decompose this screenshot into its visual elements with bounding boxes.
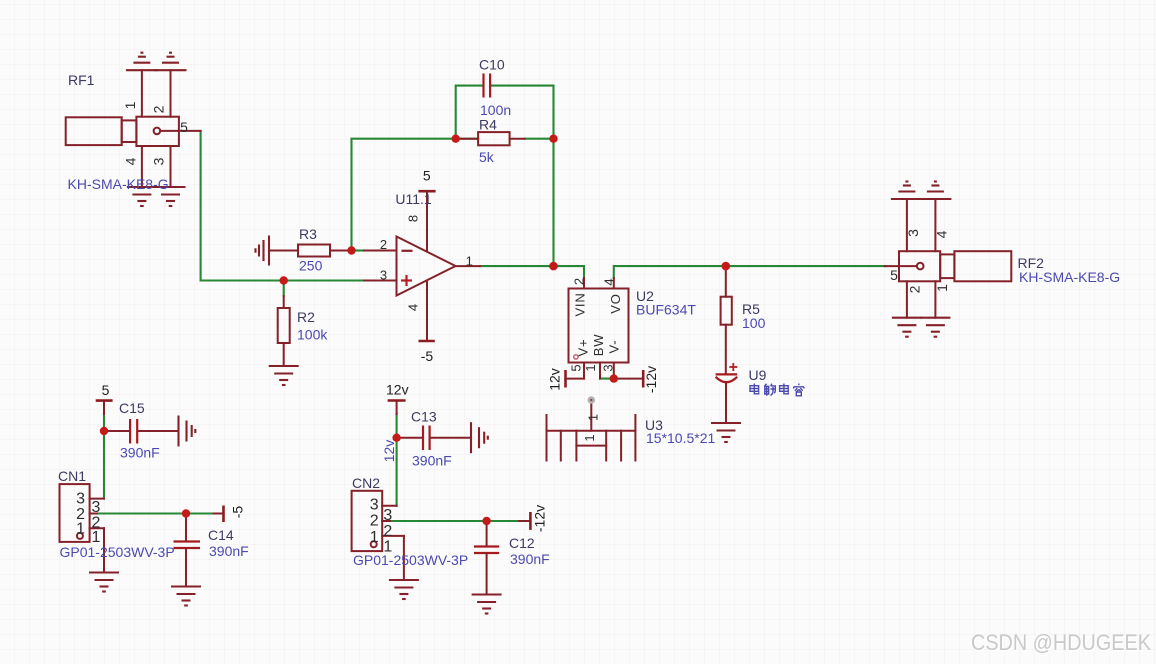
svg-text:3: 3 [76, 490, 85, 507]
svg-text:8: 8 [406, 215, 421, 222]
svg-text:V-: V- [607, 340, 622, 354]
svg-text:C15: C15 [119, 400, 145, 416]
svg-text:4: 4 [406, 304, 421, 311]
svg-text:100k: 100k [297, 327, 328, 343]
svg-text:1: 1 [586, 414, 601, 421]
svg-text:C14: C14 [208, 527, 234, 543]
svg-text:3: 3 [905, 229, 921, 237]
svg-text:1: 1 [92, 529, 101, 546]
svg-text:1: 1 [934, 284, 950, 292]
svg-text:3: 3 [383, 507, 392, 524]
svg-text:3: 3 [380, 268, 387, 283]
svg-text:5: 5 [102, 382, 110, 398]
svg-text:4: 4 [934, 230, 950, 238]
svg-text:2: 2 [370, 513, 379, 530]
svg-text:R2: R2 [297, 309, 315, 325]
svg-text:U11.1: U11.1 [395, 191, 432, 207]
svg-text:3: 3 [151, 157, 167, 165]
svg-text:1: 1 [383, 539, 392, 556]
svg-text:KH-SMA-KE8-G: KH-SMA-KE8-G [68, 176, 169, 192]
svg-text:1: 1 [370, 529, 379, 546]
svg-text:12v: 12v [386, 382, 409, 398]
svg-text:-5: -5 [230, 506, 246, 519]
svg-text:3: 3 [370, 496, 379, 513]
svg-text:C12: C12 [509, 535, 535, 551]
svg-text:-12v: -12v [532, 505, 548, 532]
svg-text:1: 1 [583, 364, 598, 371]
svg-text:390nF: 390nF [412, 453, 452, 469]
svg-text:CSDN @HDUGEEK: CSDN @HDUGEEK [971, 630, 1151, 655]
svg-text:5: 5 [890, 267, 898, 283]
svg-text:-12v: -12v [643, 366, 659, 393]
svg-text:VIN: VIN [573, 292, 588, 316]
svg-text:BW: BW [591, 334, 606, 357]
svg-text:V+: V+ [576, 339, 591, 357]
svg-text:2: 2 [380, 237, 387, 252]
svg-text:3: 3 [601, 364, 616, 371]
svg-text:2: 2 [907, 285, 923, 293]
svg-text:R3: R3 [299, 226, 317, 242]
svg-text:1: 1 [122, 101, 138, 109]
svg-text:CN2: CN2 [352, 475, 380, 491]
svg-text:5k: 5k [479, 149, 495, 165]
svg-text:12v: 12v [547, 368, 563, 391]
svg-text:C13: C13 [411, 409, 437, 425]
svg-text:BUF634T: BUF634T [636, 302, 696, 318]
svg-text:KH-SMA-KE8-G: KH-SMA-KE8-G [1019, 269, 1120, 285]
svg-text:390nF: 390nF [209, 543, 249, 559]
svg-text:GP01-2503WV-3P: GP01-2503WV-3P [60, 544, 175, 560]
svg-text:2: 2 [572, 278, 587, 285]
svg-text:1: 1 [582, 434, 597, 441]
svg-text:5: 5 [423, 168, 431, 184]
svg-text:100: 100 [742, 315, 766, 331]
svg-text:C10: C10 [479, 57, 505, 73]
svg-text:2: 2 [383, 523, 392, 540]
svg-text:5: 5 [569, 364, 584, 371]
svg-text:390nF: 390nF [510, 551, 550, 567]
svg-text:R4: R4 [479, 117, 497, 133]
svg-text:3: 3 [92, 499, 101, 516]
svg-text:390nF: 390nF [120, 445, 160, 461]
svg-text:4: 4 [602, 278, 617, 285]
svg-text:4: 4 [123, 157, 139, 165]
svg-text:5: 5 [180, 119, 188, 135]
svg-text:GP01-2503WV-3P: GP01-2503WV-3P [353, 552, 468, 568]
svg-text:15*10.5*21: 15*10.5*21 [646, 430, 716, 446]
svg-text:-5: -5 [421, 348, 434, 364]
svg-text:1: 1 [76, 521, 85, 538]
svg-text:CN1: CN1 [58, 468, 86, 484]
svg-text:1: 1 [466, 253, 473, 268]
svg-text:U9: U9 [749, 367, 767, 383]
svg-text:250: 250 [299, 258, 323, 274]
svg-text:12v: 12v [381, 440, 397, 463]
svg-text:RF1: RF1 [68, 72, 95, 88]
svg-text:2: 2 [151, 105, 167, 113]
svg-text:VO: VO [608, 293, 623, 313]
